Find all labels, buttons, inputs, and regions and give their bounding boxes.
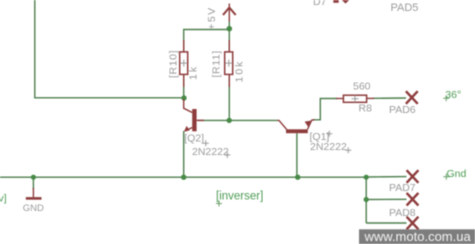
svg-text:1k: 1k — [188, 65, 200, 80]
svg-text:PAD5: PAD5 — [391, 2, 419, 14]
svg-text:v]: v] — [0, 193, 7, 205]
svg-text:[Q2]: [Q2] — [184, 132, 204, 144]
svg-text:+5V: +5V — [206, 6, 218, 29]
svg-text:GND: GND — [23, 203, 44, 214]
svg-text:[R10]: [R10] — [168, 50, 180, 78]
svg-text:D7: D7 — [313, 0, 327, 8]
svg-text:2N2222: 2N2222 — [192, 146, 229, 158]
svg-text:[R11]: [R11] — [211, 50, 223, 77]
svg-text:[inverser]: [inverser] — [216, 191, 263, 203]
svg-text:36°: 36° — [445, 89, 461, 101]
svg-text:10k: 10k — [234, 60, 246, 83]
svg-text:PAD8: PAD8 — [389, 207, 416, 219]
svg-text:R8: R8 — [359, 102, 373, 114]
svg-text:2N2222: 2N2222 — [310, 141, 347, 153]
svg-text:www.moto.com.ua: www.moto.com.ua — [364, 229, 472, 244]
svg-text:PAD6: PAD6 — [389, 104, 416, 116]
svg-text:Gnd: Gnd — [447, 168, 467, 180]
svg-text:PAD7: PAD7 — [389, 182, 416, 194]
svg-text:560: 560 — [353, 81, 371, 93]
